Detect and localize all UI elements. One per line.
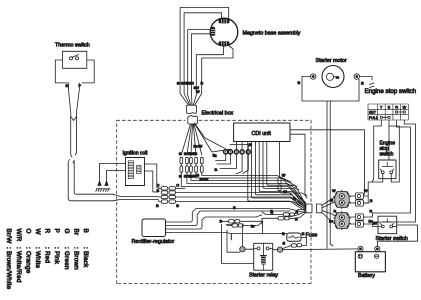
svg-text:W: W: [282, 174, 286, 178]
magneto left coil: [211, 27, 215, 36]
svg-text:Br: Br: [72, 229, 79, 236]
svg-text:W/R: W/R: [15, 229, 22, 242]
table SET continuity: [395, 111, 397, 113]
main connector upper half: [186, 105, 196, 113]
svg-text:W: W: [196, 90, 200, 94]
wire relay left feeds: [230, 234, 232, 240]
battery box: [355, 252, 385, 272]
wire fan below connector: [181, 124, 202, 156]
wire magneto lead 4: [192, 34, 211, 105]
wire motor left loop: [302, 77, 359, 102]
svg-text:Magneto base assembly: Magneto base assembly: [243, 31, 301, 37]
svg-text:Br: Br: [373, 222, 378, 226]
wire to ring1 Br/W: [195, 123, 226, 149]
thermo cable lower: [68, 160, 74, 192]
engine stop switch contacts: [381, 171, 384, 174]
starter switch box: [378, 216, 397, 234]
svg-text:Starter relay: Starter relay: [249, 273, 278, 279]
starter motor right terminal: [354, 74, 359, 79]
svg-text:B: B: [331, 199, 334, 203]
svg-text:P: P: [53, 229, 60, 233]
svg-text:Engine stop switch: Engine stop switch: [365, 88, 417, 95]
svg-text:B: B: [388, 105, 391, 109]
bullet pair R lower: [278, 217, 284, 220]
square connector pair W/B: [349, 193, 369, 206]
wire relay right to fuse: [283, 237, 307, 248]
wire thermo left lead: [55, 60, 68, 83]
svg-text:W: W: [34, 229, 41, 236]
svg-text:W/R: W/R: [187, 81, 195, 85]
svg-text:: Pink: : Pink: [53, 247, 60, 265]
ignition coil primary winding: [128, 161, 141, 179]
CDI unit box: [234, 123, 290, 142]
svg-text:switch: switch: [380, 152, 394, 158]
wire coil secondary leads: [145, 164, 160, 192]
wire magneto lead 2: [184, 13, 221, 105]
wire starter switch left: [373, 226, 382, 228]
wire motor right stub: [360, 77, 373, 81]
wire magneto lead 5: [193, 46, 223, 105]
battery minus: [375, 254, 379, 258]
svg-text:G: G: [177, 81, 180, 85]
wire to ring2 B: [195, 124, 231, 152]
svg-text:: Black: : Black: [82, 247, 89, 268]
starter motor circle: [322, 66, 344, 88]
wires below rings: [216, 154, 249, 174]
wire thermo drop P: [76, 83, 79, 116]
svg-text:: Brown: : Brown: [72, 247, 79, 270]
magneto bottom coil: [219, 41, 230, 45]
svg-text:Rectifier-regulator: Rectifier-regulator: [132, 239, 175, 245]
wire cluster rows continue right: [158, 188, 306, 209]
bullet connector W vertical: [278, 178, 281, 184]
thermo cable taper: [113, 194, 158, 201]
svg-text:B: B: [176, 204, 179, 208]
svg-text:B: B: [66, 84, 69, 88]
thermo cable upper: [71, 116, 77, 157]
svg-text:: Orange: : Orange: [24, 247, 31, 274]
wire table R drop: [370, 120, 410, 217]
wire break symbol: [370, 83, 375, 88]
svg-text:B: B: [195, 152, 198, 156]
relay coil: [260, 255, 267, 270]
svg-text:R: R: [296, 211, 299, 215]
magneto top coil: [219, 19, 230, 23]
relay right terminal: [277, 247, 282, 252]
engine stop switch plunger: [382, 163, 393, 167]
wire CDI bottom drops: [248, 142, 267, 200]
svg-text:W/R: W/R: [189, 175, 197, 179]
electrical box dashed border: [117, 120, 311, 283]
starter switch contacts: [381, 225, 384, 228]
svg-text:O: O: [176, 184, 179, 188]
wire coil HT lead 2: [107, 171, 126, 182]
svg-text:: Green: : Green: [63, 247, 70, 270]
wire fan to round connectors: [322, 196, 337, 224]
svg-text:Battery: Battery: [358, 273, 375, 279]
funnel connector left half: [306, 204, 312, 213]
wire CDI right lead 2: [290, 134, 307, 198]
svg-text:Br: Br: [403, 105, 407, 109]
thermo switch contacts: [70, 57, 73, 60]
svg-text:B: B: [298, 81, 301, 85]
magneto circle: [210, 18, 238, 46]
svg-text:G: G: [63, 229, 70, 234]
wire misc bottom: [222, 224, 254, 263]
starter relay box: [254, 243, 273, 270]
svg-text:Starter motor: Starter motor: [316, 58, 347, 64]
svg-text:B: B: [82, 229, 89, 233]
battery terminals: [358, 246, 363, 251]
svg-text:B: B: [370, 199, 373, 203]
wire stop switch leads: [363, 126, 399, 203]
fuse box: [287, 233, 301, 241]
wire row B-Br: [222, 221, 287, 240]
thermo switch box: [62, 51, 86, 68]
wire thermo right lead: [82, 60, 94, 83]
svg-text:CDI unit: CDI unit: [252, 131, 272, 137]
svg-text:B: B: [156, 204, 159, 208]
wire relay right to battery: [283, 248, 358, 251]
wire starter switch right loop: [378, 225, 418, 246]
svg-text:: Brown/White: : Brown/White: [5, 247, 12, 290]
square connector pair R/Br: [349, 214, 372, 227]
svg-text:B: B: [302, 232, 305, 236]
wire CDI drops bend right: [248, 184, 306, 212]
bullet pair fuse lead: [291, 244, 296, 247]
left bullet cluster: [161, 187, 175, 204]
svg-text:B: B: [233, 206, 236, 210]
spark plug caps: [96, 189, 110, 192]
svg-text:P: P: [79, 84, 82, 88]
engine stop switch box: [379, 160, 396, 179]
wire table B drop: [388, 120, 390, 160]
wire CDI W lead with bullets: [280, 142, 308, 196]
wire column drops bending right: [181, 172, 240, 186]
bullet pair R upper: [283, 213, 289, 216]
svg-text:Y: Y: [380, 105, 383, 109]
wire magneto lead 3: [188, 30, 211, 105]
svg-text:W: W: [332, 189, 336, 193]
legend: [5, 229, 89, 290]
svg-text:W: W: [283, 190, 287, 194]
ignition coil box: [126, 158, 145, 186]
spark plug arrows: [98, 181, 101, 186]
wire CDI right lead 1: [290, 130, 365, 196]
table PULL continuity: [380, 116, 382, 118]
bullet pair row 1: [229, 220, 235, 223]
svg-text:B: B: [361, 82, 364, 86]
svg-text:: Red: : Red: [44, 247, 51, 264]
svg-text:: White: : White: [34, 247, 41, 269]
svg-text:SET: SET: [369, 111, 377, 115]
svg-text:PULL: PULL: [369, 116, 378, 120]
wire rectifier leads: [166, 209, 306, 234]
svg-text:B: B: [215, 168, 218, 172]
svg-text:Ignition coil: Ignition coil: [123, 151, 148, 157]
svg-text:Br: Br: [329, 220, 334, 224]
svg-text:B: B: [295, 218, 298, 222]
svg-text:m: m: [336, 76, 340, 80]
relay plunger: [262, 243, 264, 255]
bullet pair row 2: [232, 224, 238, 227]
svg-text:B: B: [201, 81, 204, 85]
wire bundle rows to funnel: [240, 184, 306, 205]
wire R leads left: [262, 212, 283, 224]
ring terminals under CDI: [224, 150, 251, 154]
starter motor left terminal: [311, 74, 316, 79]
wire table Y drop: [372, 120, 381, 182]
round connector upper: [334, 190, 351, 209]
bullet connectors column: [180, 157, 203, 172]
rectifier-regulator box: [142, 219, 166, 237]
svg-text:B: B: [214, 154, 217, 158]
starter switch plunger: [382, 219, 393, 223]
svg-text:Electrical box: Electrical box: [202, 111, 234, 117]
funnel connector right half: [316, 204, 322, 213]
svg-text:: White/Red: : White/Red: [15, 247, 22, 283]
thermo cable elbow: [68, 188, 113, 201]
wire relay connections: [245, 248, 277, 251]
svg-text:Br/W: Br/W: [194, 145, 203, 149]
engine stop switch table: [368, 104, 408, 120]
relay contacts: [257, 247, 260, 250]
svg-text:B: B: [283, 242, 286, 246]
wire coil HT lead 1: [100, 164, 126, 182]
wire magneto lead 1: [180, 8, 229, 105]
round connector lower: [334, 211, 351, 230]
svg-text:G: G: [179, 152, 182, 156]
svg-text:Thermo switch: Thermo switch: [55, 43, 90, 49]
svg-text:R: R: [334, 210, 337, 214]
wire motor cable down: [327, 101, 333, 248]
wire table Br drop: [373, 120, 416, 227]
wire thermo drop B: [69, 83, 71, 116]
svg-text:Br/W: Br/W: [5, 229, 12, 245]
relay left terminal: [240, 247, 245, 252]
main connector lower half: [188, 115, 198, 124]
svg-text:B: B: [157, 189, 160, 193]
svg-text:R: R: [44, 229, 51, 234]
ring stubs up to CDI: [230, 142, 248, 150]
fuse element: [288, 236, 299, 238]
svg-text:W: W: [364, 189, 368, 193]
svg-text:Fuse: Fuse: [306, 233, 318, 239]
svg-text:O: O: [157, 184, 160, 188]
wire magneto lead 6: [195, 46, 233, 105]
svg-text:R: R: [395, 105, 398, 109]
svg-text:B: B: [270, 210, 273, 214]
battery plus: [358, 254, 362, 258]
svg-text:O: O: [24, 229, 31, 234]
wire funnel lower converge: [289, 210, 306, 220]
